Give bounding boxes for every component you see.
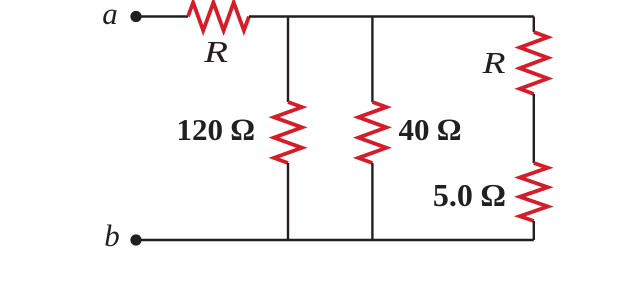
svg-text:5.0 Ω: 5.0 Ω — [433, 177, 506, 213]
wire: branch 1 bottom — [287, 163, 289, 240]
node b terminal dot — [130, 234, 141, 245]
wire: a to resistor R top-left — [141, 15, 188, 17]
wire: right rail top corner down to R — [533, 17, 535, 33]
svg-text:a: a — [102, 0, 118, 31]
node a terminal dot — [130, 11, 141, 22]
svg-text:b: b — [104, 218, 120, 253]
resistor 40 ohm — [358, 102, 386, 163]
wire: branch 2 bottom — [371, 163, 373, 240]
resistor R (right vertical) — [520, 32, 548, 94]
wire: branch 1 top — [287, 17, 289, 103]
svg-text:40 Ω: 40 Ω — [399, 112, 462, 147]
resistor 5.0 ohm — [520, 163, 548, 221]
wire: branch 2 top — [371, 17, 373, 103]
wire: bottom rail b to right corner — [141, 239, 534, 241]
svg-text:R: R — [203, 34, 228, 69]
wire: top rail from R to right corner — [249, 15, 534, 17]
svg-text:R: R — [481, 45, 505, 80]
resistor R (top horizontal) — [188, 3, 249, 31]
svg-text:120 Ω: 120 Ω — [176, 112, 254, 147]
resistor 120 ohm — [274, 102, 302, 163]
wire: between right R and 5.0 ohm — [533, 94, 535, 163]
wire: right rail bottom — [533, 221, 535, 240]
